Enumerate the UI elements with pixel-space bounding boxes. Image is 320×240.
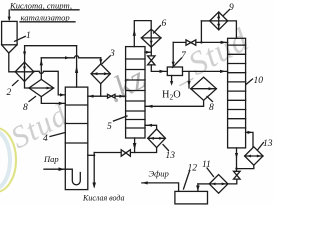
svg-text:11: 11: [202, 160, 211, 170]
pipe: separator 7 to column 10: [183, 70, 228, 73]
pipe: column 5 top side stub: [145, 51, 151, 54]
label 6: [154, 19, 167, 33]
pipe condenser 6 to valve: [150, 47, 152, 56]
label 2: [7, 81, 19, 99]
pipe: branch down to cooler 8 right: [187, 71, 190, 88]
cooler 11: [209, 175, 228, 194]
svg-text:5: 5: [107, 122, 112, 132]
svg-text:10: 10: [254, 76, 264, 86]
label 8 left: [23, 97, 36, 114]
pipe: pump 13 right bottom loop: [237, 165, 254, 171]
svg-text:13: 13: [166, 151, 176, 161]
svg-text:8: 8: [23, 103, 28, 113]
pipe: pump 13 left bottom to drain line: [94, 148, 156, 153]
svg-text:.kz: .kz: [101, 60, 152, 110]
svg-text:катализатор: катализатор: [21, 13, 71, 23]
svg-text:8: 8: [209, 103, 214, 113]
svg-text:Кислая вода: Кислая вода: [82, 194, 124, 203]
mixer vessel 1: [2, 21, 18, 53]
watermark text .kz middle: [101, 60, 152, 110]
heat exchanger 2: [15, 62, 34, 81]
pipe: valve to separator 7: [151, 65, 167, 73]
feed arrow into mixer 1: [8, 10, 11, 21]
pump 13 right: [245, 147, 263, 165]
label 5: [107, 116, 127, 132]
pipe: vapor riser from column 4 top: [75, 46, 78, 87]
combined acid water drain: [92, 153, 96, 189]
feed text line 2: [20, 13, 75, 23]
svg-text:13: 13: [263, 139, 273, 149]
ether product line: [142, 181, 179, 191]
watermark text Stud lower-left: [5, 97, 74, 156]
pipe: condenser 9 left outlet: [201, 20, 209, 22]
column 10: [228, 38, 246, 148]
pipe arrow into heater 3 top: [99, 58, 102, 64]
svg-text:9: 9: [229, 3, 234, 13]
steam line with sparger: [44, 167, 80, 184]
svg-text:1: 1: [26, 31, 31, 41]
label 12: [184, 164, 198, 190]
pipe: mixer outlet to heat exchanger 2: [9, 53, 15, 72]
pipe: reflux line into separator 7 top: [172, 42, 175, 66]
valve below condenser 6: [148, 56, 155, 65]
pipe: cooler 8 right to column 5: [145, 100, 204, 108]
valve between heater 3 and column 5: [108, 94, 116, 98]
pipe: column 10 bottom drain: [235, 148, 238, 169]
water drain from separator 7: [170, 76, 173, 86]
svg-text:Stud: Stud: [183, 22, 255, 83]
pipe: cooler 8 bottom to column 4: [41, 97, 65, 105]
receiver 12: [175, 191, 208, 204]
junction dot column 10 drain: [235, 167, 237, 169]
label 8 right: [207, 97, 214, 114]
svg-text:Кислота, спирт,: Кислота, спирт,: [9, 1, 72, 11]
pipe: horizontal recycle line (top): [25, 45, 77, 47]
condenser 6: [141, 29, 161, 47]
label 13 right: [258, 139, 273, 150]
pipe: column 10 vapor to condenser 9: [228, 21, 237, 38]
pipe: column 10 side to pump 13 right: [246, 131, 253, 147]
valve on bottoms line: [121, 150, 130, 157]
condenser 9: [210, 12, 228, 30]
feed text line 1: [9, 1, 79, 11]
label 1: [15, 31, 31, 41]
svg-text:6: 6: [162, 19, 167, 29]
label 9: [224, 3, 234, 15]
pipe: recycle down into exchanger 2 top: [23, 46, 26, 63]
pipe: valve to cooler 11: [228, 179, 237, 184]
pipe: condensate line from condenser 9: [173, 21, 227, 44]
separator 7: [167, 67, 182, 76]
watermark dash: [169, 60, 200, 99]
svg-text:2: 2: [7, 88, 12, 98]
svg-text:3: 3: [109, 49, 115, 59]
pipe: exchanger 2 outlet to column 4: [34, 71, 65, 96]
label 10: [246, 76, 263, 86]
pipe: cooler 11 to receiver 12: [196, 184, 209, 191]
junction dot condensate line: [200, 41, 202, 43]
acid water drain from column 4: [88, 154, 94, 156]
pipe: riser from cooler 8 to heater 3: [40, 56, 101, 80]
svg-text:Эфир: Эфир: [149, 169, 170, 179]
svg-text:4: 4: [43, 134, 48, 144]
column 4: [65, 87, 88, 190]
cooler 8 (left): [29, 79, 54, 96]
svg-text:H2O: H2O: [162, 90, 181, 102]
pipe: drop from heater 3 into both columns: [88, 84, 126, 98]
label 11: [202, 160, 214, 177]
watermark ring bottom-left: [0, 128, 16, 192]
junction dot acid water drain: [93, 154, 95, 156]
column 5: [126, 47, 145, 138]
cooler 8 (right): [191, 77, 217, 100]
pipe: column 5 vapor riser to condenser 6: [133, 21, 152, 47]
svg-text:Пар: Пар: [43, 154, 59, 164]
pump 13 left: [148, 129, 166, 148]
pipe: exchanger 2 bottom to cooler 8: [25, 81, 30, 88]
valve below column 10 drain: [234, 171, 241, 179]
label 13 left: [163, 145, 175, 162]
label 3: [102, 49, 115, 64]
label 7: [173, 51, 188, 68]
label 4: [43, 133, 65, 145]
valve on condensate line: [186, 40, 196, 45]
pipe: column 5 side to pump 13 left: [145, 124, 157, 129]
heater 3: [91, 64, 110, 84]
watermark text Stud upper-right: [183, 22, 255, 83]
pipe: column 5 bottom drain: [133, 138, 137, 153]
